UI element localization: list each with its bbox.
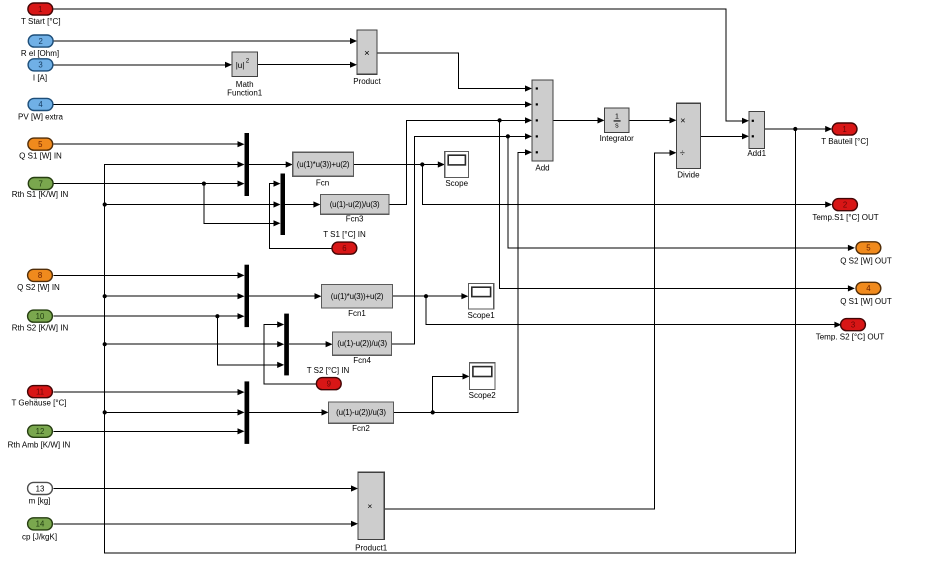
svg-text:4: 4 [38, 100, 43, 109]
svg-text:1: 1 [38, 5, 42, 14]
svg-text:Q S2 [W] IN: Q S2 [W] IN [17, 283, 60, 292]
svg-text:T S1 [°C] IN: T S1 [°C] IN [323, 230, 366, 239]
svg-text:×: × [364, 48, 370, 59]
svg-text:14: 14 [36, 520, 45, 529]
svg-text:Q S2 [W] OUT: Q S2 [W] OUT [840, 257, 892, 266]
svg-text:2: 2 [843, 201, 847, 210]
svg-text:2: 2 [39, 37, 43, 46]
svg-text:Fcn1: Fcn1 [348, 309, 366, 318]
svg-text:(u(1)*u(3))+u(2): (u(1)*u(3))+u(2) [297, 160, 350, 169]
svg-text:Fcn2: Fcn2 [352, 424, 370, 433]
svg-text:13: 13 [36, 484, 45, 493]
svg-text:Add1: Add1 [747, 149, 766, 158]
svg-text:Temp.S1 [°C] OUT: Temp.S1 [°C] OUT [812, 213, 878, 222]
svg-text:1: 1 [615, 113, 619, 120]
svg-text:4: 4 [866, 284, 871, 293]
svg-text:Rth S2 [K/W] IN: Rth S2 [K/W] IN [12, 324, 69, 333]
svg-text:Function1: Function1 [227, 89, 263, 98]
svg-text:Add: Add [535, 163, 549, 172]
svg-text:÷: ÷ [680, 148, 685, 158]
svg-text:R el [Ohm]: R el [Ohm] [21, 49, 59, 58]
svg-text:I [A]: I [A] [33, 73, 47, 82]
svg-text:Fcn4: Fcn4 [353, 356, 371, 365]
svg-text:3: 3 [851, 321, 855, 330]
svg-text:9: 9 [327, 380, 331, 389]
svg-text:8: 8 [38, 271, 42, 280]
svg-text:(u(1)-u(2))/u(3): (u(1)-u(2))/u(3) [337, 339, 387, 348]
svg-text:(u(1)*u(3))+u(2): (u(1)*u(3))+u(2) [331, 292, 384, 301]
svg-text:Math: Math [236, 80, 254, 89]
svg-text:10: 10 [36, 312, 45, 321]
svg-text:(u(1)-u(2))/u(3): (u(1)-u(2))/u(3) [330, 200, 380, 209]
svg-text:T Bauteil [°C]: T Bauteil [°C] [821, 137, 868, 146]
svg-text:T Gehäuse [°C]: T Gehäuse [°C] [11, 399, 66, 408]
svg-text:5: 5 [38, 140, 43, 149]
svg-text:Product1: Product1 [355, 543, 388, 552]
svg-text:1: 1 [842, 125, 846, 134]
svg-text:2: 2 [246, 58, 250, 65]
svg-text:Divide: Divide [677, 170, 700, 179]
svg-text:Fcn3: Fcn3 [346, 215, 364, 224]
svg-text:Product: Product [353, 77, 381, 86]
svg-text:Q S1 [W] IN: Q S1 [W] IN [19, 152, 62, 161]
svg-text:7: 7 [39, 179, 43, 188]
svg-text:Integrator: Integrator [600, 134, 635, 143]
svg-text:3: 3 [38, 61, 42, 70]
svg-text:6: 6 [342, 244, 346, 253]
svg-text:PV [W] extra: PV [W] extra [18, 112, 63, 121]
svg-text:Temp. S2 [°C] OUT: Temp. S2 [°C] OUT [816, 333, 885, 342]
svg-text:(u(1)-u(2))/u(3): (u(1)-u(2))/u(3) [336, 408, 386, 417]
svg-text:Rth Amb [K/W] IN: Rth Amb [K/W] IN [8, 440, 71, 449]
svg-text:cp [J/kgK]: cp [J/kgK] [22, 532, 57, 541]
svg-text:Scope1: Scope1 [468, 311, 496, 320]
svg-text:11: 11 [36, 387, 44, 396]
svg-text:×: × [680, 116, 685, 126]
svg-text:Fcn: Fcn [316, 178, 329, 187]
svg-text:|u|: |u| [236, 61, 245, 70]
svg-text:12: 12 [36, 427, 45, 436]
svg-text:s: s [615, 122, 619, 129]
svg-text:5: 5 [866, 244, 871, 253]
svg-text:Scope2: Scope2 [469, 391, 497, 400]
svg-text:Q S1 [W] OUT: Q S1 [W] OUT [840, 297, 892, 306]
svg-text:T S2 [°C] IN: T S2 [°C] IN [307, 366, 350, 375]
svg-text:m [kg]: m [kg] [29, 497, 51, 506]
svg-text:×: × [367, 501, 372, 511]
svg-text:T Start [°C]: T Start [°C] [21, 17, 61, 26]
svg-text:Scope: Scope [445, 179, 468, 188]
svg-text:Rth S1 [K/W] IN: Rth S1 [K/W] IN [12, 190, 69, 199]
